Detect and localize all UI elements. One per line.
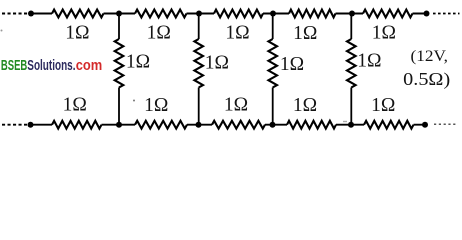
svg-text:1Ω: 1Ω [126, 51, 150, 72]
svg-text:com: com [76, 58, 103, 74]
svg-text:1Ω: 1Ω [280, 54, 304, 75]
svg-text:1Ω: 1Ω [144, 95, 168, 116]
node top 2 [116, 11, 122, 17]
svg-text:1Ω: 1Ω [293, 23, 317, 44]
resistor R1 1ohm top [52, 10, 104, 18]
svg-text:1Ω: 1Ω [225, 23, 249, 44]
node top 5 [349, 11, 355, 17]
svg-text:Solutions.: Solutions. [27, 58, 75, 74]
svg-text:1Ω: 1Ω [357, 51, 381, 72]
node top 1 [28, 11, 34, 17]
resistor R8 1ohm bottom [212, 121, 265, 129]
resistor R14 1ohm vertical [347, 39, 356, 88]
node bottom 4 [270, 122, 276, 128]
svg-text:(12V,: (12V, [411, 46, 449, 65]
resistor R6 1ohm bottom [52, 121, 102, 129]
resistor R7 1ohm bottom [135, 121, 187, 129]
node bottom 3 [196, 122, 202, 128]
svg-text:1Ω: 1Ω [371, 95, 395, 116]
wire dashed lead bottom-right [434, 123, 458, 125]
svg-text:1Ω: 1Ω [147, 23, 171, 44]
resistor R4 1ohm top [289, 10, 336, 18]
resistor R5 1ohm top [363, 10, 413, 18]
resistor R11 1ohm vertical [115, 39, 124, 88]
wire dashed lead top-left [2, 13, 29, 15]
wire top rail [31, 13, 427, 15]
resistor R10 1ohm bottom [364, 121, 414, 129]
node bottom 2 [116, 122, 122, 128]
wire dashed lead bottom-left [2, 124, 27, 126]
resistor R9 1ohm bottom [287, 121, 336, 129]
wire bottom rail [31, 124, 426, 126]
resistor R2 1ohm top [135, 10, 187, 18]
svg-text:1Ω: 1Ω [224, 95, 248, 116]
svg-text:BSEB: BSEB [1, 58, 27, 74]
wire vertical leads R13 [272, 14, 274, 125]
node bottom 6 [422, 122, 428, 128]
node top 3 [196, 11, 202, 17]
svg-text:1Ω: 1Ω [205, 53, 229, 74]
svg-text:0.5Ω): 0.5Ω) [403, 69, 450, 89]
resistor R12 1ohm vertical [194, 39, 203, 88]
node top 4 [270, 11, 276, 17]
wire vertical leads R12 [198, 14, 200, 125]
resistor R3 1ohm top [214, 10, 263, 18]
svg-text:1Ω: 1Ω [65, 23, 89, 44]
wire vertical leads R11 [118, 14, 120, 125]
node top 6 [424, 11, 430, 17]
speck [343, 121, 347, 122]
svg-text:1Ω: 1Ω [372, 23, 396, 44]
wire dashed lead top-right [433, 13, 460, 15]
svg-text:1Ω: 1Ω [293, 95, 317, 116]
speck [133, 100, 135, 102]
node bottom 5 [348, 122, 354, 128]
watermark BSEBSolutions.com [1, 58, 102, 74]
resistor R13 1ohm vertical [268, 39, 277, 88]
node bottom 1 [28, 122, 34, 128]
speck [1, 30, 3, 32]
wire vertical leads R14 [350, 14, 352, 125]
svg-text:1Ω: 1Ω [63, 95, 87, 116]
